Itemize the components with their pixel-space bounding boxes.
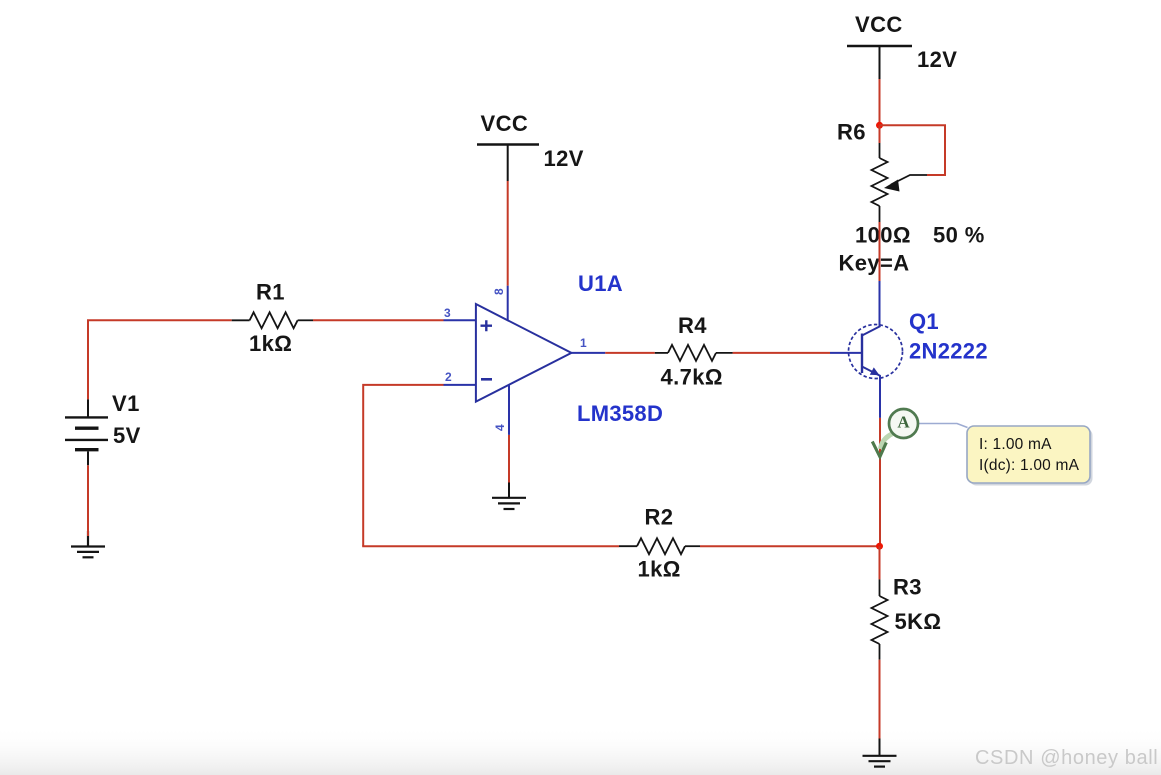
wire: R4 to Q1 base (red) [733, 352, 830, 354]
ground (below op-amp) [492, 483, 526, 510]
wire: R2 to junction (red) [700, 545, 880, 547]
wire: pin2 red segment + feedback vertical [362, 385, 443, 546]
wire: R6 top red + pot loop [880, 125, 946, 175]
svg-text:V1: V1 [112, 391, 140, 416]
ground (below R3) [863, 739, 897, 767]
svg-text:Q1: Q1 [909, 309, 939, 334]
R6 wiper arrow [891, 175, 927, 185]
ground (below V1) [71, 531, 105, 557]
wire: Q1 emitter blue [879, 376, 881, 418]
Q1 emitter arrow [870, 367, 880, 375]
current probe arrow [881, 433, 895, 449]
svg-text:LM358D: LM358D [577, 401, 663, 426]
wire: pin4 red to ground [508, 435, 510, 483]
resistor R3 [872, 579, 888, 659]
svg-text:VCC: VCC [481, 111, 529, 136]
wire: pin3 blue segment [444, 319, 476, 321]
VCC rail (op-amp supply) [477, 111, 584, 181]
wire: pin8 blue into op-amp [507, 286, 509, 321]
current probe leader line [919, 424, 968, 428]
svg-text:R3: R3 [893, 575, 922, 600]
svg-text:4: 4 [493, 424, 507, 431]
wire: op-amp pin4 blue [508, 385, 510, 435]
svg-text:50 %: 50 % [933, 223, 985, 248]
svg-text:100Ω: 100Ω [855, 223, 911, 248]
svg-text:1kΩ: 1kΩ [249, 331, 292, 356]
node junction at R6 top [876, 122, 883, 129]
plus input mark [481, 320, 493, 331]
svg-text:I(dc): 1.00 mA: I(dc): 1.00 mA [979, 457, 1080, 474]
svg-text:8: 8 [492, 288, 506, 295]
wire: V1 top to R1 (left vertical + horizontal) [88, 319, 232, 531]
resistor R1 [232, 312, 313, 328]
svg-text:A: A [897, 413, 910, 432]
svg-text:1: 1 [580, 336, 587, 350]
svg-text:2N2222: 2N2222 [909, 339, 988, 364]
VCC rail (top right) [847, 12, 957, 79]
svg-text:1kΩ: 1kΩ [638, 557, 681, 582]
op-amp U1A triangle [476, 304, 572, 402]
svg-text:3: 3 [444, 306, 451, 320]
wire: VCC to R6 junction (red) [879, 79, 881, 125]
resistor R4 [655, 345, 733, 361]
bottom gradient band (decor) [0, 726, 1161, 775]
measurement tooltip [967, 426, 1093, 486]
wire: emitter red down to junction [879, 418, 881, 546]
svg-text:CSDN @honey ball: CSDN @honey ball [975, 747, 1158, 769]
svg-text:R4: R4 [678, 313, 707, 338]
current probe circle A [889, 409, 918, 438]
svg-text:12V: 12V [544, 146, 584, 171]
svg-text:R2: R2 [645, 505, 674, 530]
wire: Q1 base blue segment [830, 352, 862, 354]
transistor Q1 [849, 325, 903, 379]
svg-text:VCC: VCC [855, 12, 903, 37]
svg-text:R6: R6 [837, 120, 866, 145]
node junction at R2/R3 [876, 543, 883, 550]
potentiometer R6 [872, 143, 928, 222]
svg-text:4.7kΩ: 4.7kΩ [661, 365, 723, 390]
svg-text:2: 2 [445, 370, 452, 384]
wire: R6 to Q1 collector (red then blue) [879, 222, 881, 281]
source V1 battery [65, 399, 108, 465]
wire: junction to R3 (red) [879, 546, 881, 579]
wire: op-amp output blue [571, 352, 605, 354]
wire: R6 dot to zigzag (red) [879, 125, 881, 143]
svg-text:R1: R1 [256, 280, 285, 305]
resistor R2 [619, 538, 700, 554]
svg-text:12V: 12V [917, 47, 957, 72]
wire: R3 to ground (red) [879, 660, 881, 739]
wire: output red to R4 [605, 352, 655, 354]
svg-text:I: 1.00 mA: I: 1.00 mA [979, 436, 1052, 453]
svg-text:U1A: U1A [578, 271, 623, 296]
wire: pin2 blue segment [444, 384, 476, 386]
wire: feedback bottom to R2 (red) [362, 545, 619, 547]
svg-text:5KΩ: 5KΩ [895, 609, 942, 634]
minus input mark [481, 378, 492, 381]
svg-text:Key=A: Key=A [839, 251, 910, 276]
wire: VCC to op-amp pin8 (red) [507, 181, 509, 286]
svg-text:5V: 5V [113, 423, 141, 448]
wire: R1 right to op-amp pin3 (red part) [313, 319, 444, 321]
